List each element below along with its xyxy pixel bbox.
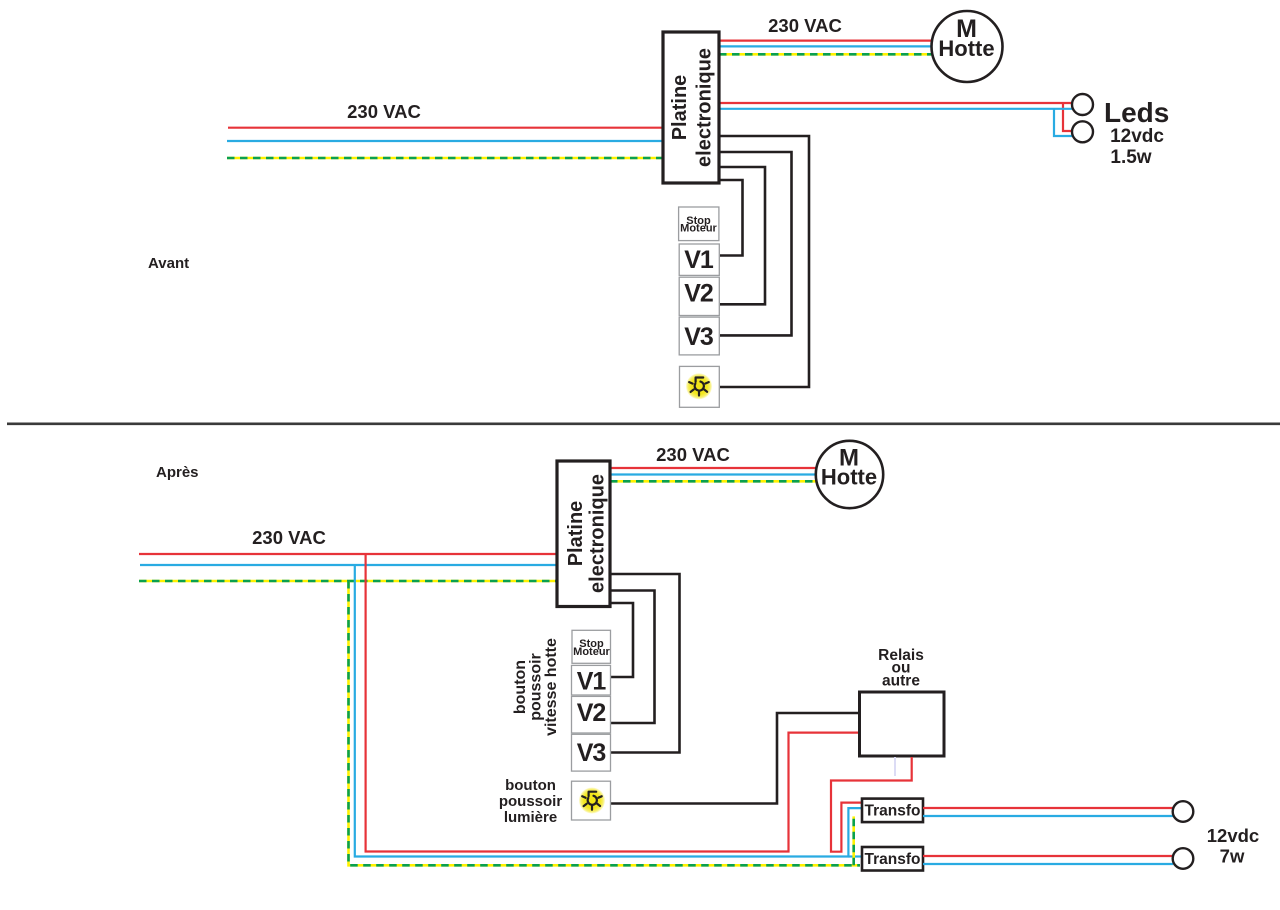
svg-text:poussoir: poussoir <box>499 793 563 810</box>
label Platine electronique (apres) <box>565 474 609 593</box>
wire button V3 black (avant) <box>719 152 792 335</box>
svg-text:electronique: electronique <box>587 474 609 593</box>
svg-text:autre: autre <box>882 673 920 690</box>
svg-text:12vdc: 12vdc <box>1207 825 1259 846</box>
wire blue branch down to bottom rail (apres) <box>355 565 862 857</box>
wire button light black (avant) <box>719 136 809 387</box>
wire PE earth yellow-green 230VAC input (apres) <box>139 580 558 583</box>
svg-text:electronique: electronique <box>694 48 716 167</box>
label bouton poussoir lumiere <box>499 777 563 826</box>
wire red branch down to bottom rail (apres) <box>366 554 860 852</box>
svg-text:V2: V2 <box>684 280 713 308</box>
box U2 Platine electronique (apres) <box>557 461 610 607</box>
svg-text:Leds: Leds <box>1104 97 1169 128</box>
svg-text:230 VAC: 230 VAC <box>347 101 421 122</box>
button V3 (apres) <box>572 734 611 771</box>
wire relais output red to transfo1 (apres) <box>831 757 912 852</box>
wire motor neutral blue (apres) <box>610 473 817 475</box>
wire motor phase red (apres) <box>610 467 817 469</box>
wire N neutral blue 230VAC input (avant) <box>227 140 664 142</box>
svg-text:Après: Après <box>156 464 199 481</box>
box U1 Platine electronique (avant) <box>663 32 719 183</box>
wire leds red (avant) <box>719 103 1072 131</box>
label Relais ou autre <box>878 647 924 690</box>
svg-text:vitesse hotte: vitesse hotte <box>543 638 560 736</box>
wire transfo1 red output <box>923 807 1173 809</box>
transformer T1 Transfo box <box>862 799 923 823</box>
svg-text:Platine: Platine <box>565 501 587 567</box>
svg-text:bouton: bouton <box>512 660 529 714</box>
button V1 (avant) <box>679 244 719 275</box>
wire transfo2 blue output <box>923 863 1173 865</box>
wire PE earth yellow-green 230VAC input (avant) <box>227 157 664 160</box>
light bulb icon (apres) <box>579 788 605 814</box>
svg-text:Avant: Avant <box>148 255 189 272</box>
svg-text:Moteur: Moteur <box>573 646 610 658</box>
led lamp terminal circle 2 (avant) <box>1072 121 1093 142</box>
wire transfo1 blue output <box>923 815 1173 817</box>
svg-text:1.5w: 1.5w <box>1110 147 1151 168</box>
svg-text:230 VAC: 230 VAC <box>252 527 326 548</box>
wire motor neutral blue (avant) <box>719 45 933 47</box>
wire button V2 black (avant) <box>719 167 765 304</box>
button light (avant) <box>680 366 720 407</box>
button V3 (avant) <box>679 317 719 355</box>
wire button V1 black (apres) <box>610 603 633 677</box>
wire motor phase red (avant) <box>719 39 933 41</box>
wire earth stub up near transfo1 (apres) <box>852 816 855 865</box>
svg-text:V3: V3 <box>577 739 606 767</box>
wire motor earth yellow-green (apres) <box>610 480 818 483</box>
svg-text:V1: V1 <box>684 246 714 274</box>
label Stop Moteur (apres) <box>573 638 610 658</box>
wire leds blue (avant) <box>719 109 1072 136</box>
svg-text:Platine: Platine <box>669 75 691 141</box>
motor M Hotte circle (apres) <box>816 441 883 508</box>
wire L phase red 230VAC input (apres) <box>139 553 558 555</box>
svg-text:V1: V1 <box>577 668 607 696</box>
svg-text:230 VAC: 230 VAC <box>656 444 730 465</box>
wire transfo2 red output <box>923 855 1173 857</box>
svg-text:V2: V2 <box>577 699 606 727</box>
svg-text:poussoir: poussoir <box>528 653 545 721</box>
label Stop Moteur (avant) <box>680 215 717 235</box>
transformer T2 Transfo box <box>862 847 923 871</box>
svg-text:7w: 7w <box>1220 846 1245 867</box>
relay K1 box Relais ou autre <box>860 692 945 756</box>
wire blue rail to transfo2 (apres) <box>848 855 862 857</box>
svg-text:230 VAC: 230 VAC <box>768 15 842 36</box>
svg-text:lumière: lumière <box>504 809 557 826</box>
artifact faint line under relais <box>894 757 896 776</box>
svg-text:Moteur: Moteur <box>680 223 717 235</box>
svg-text:12vdc: 12vdc <box>1110 126 1164 147</box>
svg-text:Hotte: Hotte <box>821 465 877 490</box>
wire button light to relais black (apres) <box>611 713 860 804</box>
svg-text:V3: V3 <box>684 323 713 351</box>
wire motor earth yellow-green (avant) <box>719 53 934 56</box>
lamp terminal circle 2 (apres) <box>1173 848 1194 869</box>
label bouton poussoir vitesse hotte (rotated) <box>512 638 560 736</box>
wire N neutral blue 230VAC input (apres) <box>140 564 558 566</box>
wire button V1 black (avant) <box>719 180 743 256</box>
button light (apres) <box>572 781 611 820</box>
led lamp terminal circle 1 (avant) <box>1072 94 1093 115</box>
svg-text:bouton: bouton <box>505 777 556 794</box>
button Stop Moteur (avant) <box>679 207 719 241</box>
svg-text:Transfo: Transfo <box>865 851 921 868</box>
svg-text:Hotte: Hotte <box>938 36 994 61</box>
lamp terminal circle 1 (apres) <box>1173 801 1194 822</box>
wire L phase red 230VAC input (avant) <box>228 127 664 129</box>
button V2 (avant) <box>679 277 719 315</box>
button V1 (apres) <box>572 665 611 695</box>
wire earth branch down bottom rail (apres) <box>349 581 861 865</box>
button Stop Moteur (apres) <box>572 630 611 663</box>
svg-text:Transfo: Transfo <box>865 803 921 820</box>
label Platine electronique (avant) <box>669 48 716 167</box>
motor M Hotte circle (avant) <box>932 11 1003 82</box>
button V2 (apres) <box>572 696 611 733</box>
wire button V2 black (apres) <box>610 591 655 724</box>
wire button V3 black (apres) <box>610 574 680 753</box>
light bulb icon (avant) <box>686 373 712 399</box>
